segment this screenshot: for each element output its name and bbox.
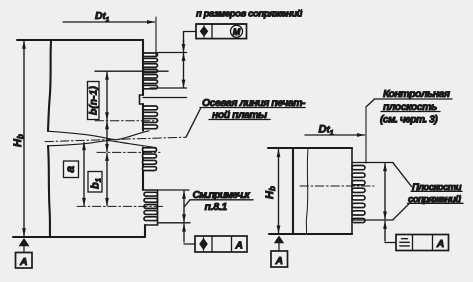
dash-dot centre line, first contact lower half: [97, 151, 160, 153]
svg-text:b(n-1): b(n-1): [89, 86, 100, 115]
svg-text:п размеров сопряжений: п размеров сопряжений: [196, 9, 303, 20]
frame divider 2: [231, 236, 233, 252]
underline sopryazheniy: [408, 202, 464, 204]
lower contact block tip edge: [157, 190, 159, 225]
contact tooth right part #2: [352, 173, 365, 177]
right tolerance frame: symmetry | blank | A: [396, 235, 449, 251]
contact tooth upper group 2 #2: [143, 112, 158, 116]
dimension a line: [83, 143, 85, 206]
fan leader to text (upper): [393, 163, 412, 187]
bottom tolerance frame (left): diamond | blank | A: [195, 236, 247, 252]
contact tooth lower block #5: [144, 217, 158, 221]
fan leader to text (lower): [393, 203, 410, 220]
dimension b1 line: [106, 153, 108, 205]
dimension Dt1 right: [305, 134, 365, 136]
extension line of contact tips (Dt1): [155, 17, 157, 56]
contact tooth upper group 1 #4: [143, 69, 158, 72]
right part left edge: [292, 148, 294, 234]
datum triangle A (left figure): [19, 238, 30, 246]
centre line right part (dash-dot): [300, 185, 374, 187]
datum box A (left): [16, 253, 33, 269]
contact tooth upper group 1 #6: [143, 80, 158, 83]
underline, axis label line 2: [209, 119, 270, 121]
leader text Sm.primech.k p.8.1: [185, 200, 191, 207]
frame divider 2 (right): [432, 235, 434, 251]
contact tooth lower block #4: [144, 211, 158, 215]
underline control plane line 1: [374, 98, 452, 100]
dimension Hb vertical line with arrows: [23, 41, 25, 236]
label box b(n-1): [88, 82, 100, 120]
frame divider: [211, 24, 213, 39]
dimension b(n-1) line: [106, 72, 108, 120]
frame leader horizontal: [184, 243, 195, 245]
svg-text:A: A: [436, 238, 445, 250]
contact tooth right part #4: [352, 188, 365, 192]
extension line, last contact of group 1: [150, 87, 187, 89]
lower contact block top edge: [144, 189, 158, 191]
extension line, first contact top: [158, 52, 187, 54]
contact tooth right part #7: [352, 211, 365, 215]
svg-text:A: A: [19, 256, 28, 268]
right part top edge: [268, 147, 352, 149]
svg-text:ной платы: ной платы: [212, 109, 267, 121]
contact tooth upper group 2 #4: [143, 125, 158, 129]
contact tooth upper group 1 #1: [143, 53, 158, 56]
contact tooth right part #5: [352, 196, 365, 200]
tolerance frame top (position/M): [196, 23, 247, 25]
break wavy line (top of lower half): [48, 141, 156, 148]
contact tooth upper group 1 #2: [143, 58, 158, 61]
underline ploskosti: [411, 190, 462, 192]
contact tooth upper group 1 #5: [143, 75, 158, 78]
label box a: [64, 161, 79, 178]
notch in right edge between contact groups: [140, 95, 144, 104]
dimension Dt1 top line: [63, 21, 155, 23]
break wavy line (bottom of upper half): [49, 131, 149, 140]
contact tooth lower group 3 #4: [143, 167, 157, 171]
contact tooth lower group 3 #1: [143, 148, 157, 152]
svg-text:a: a: [63, 166, 77, 173]
right part bottom edge / baseline: [269, 233, 352, 235]
symmetry symbol: three bars: [402, 238, 408, 240]
datum triangle A (right figure): [274, 236, 284, 244]
datum stem right: [278, 243, 280, 251]
svg-text:(см. черт. 3): (см. черт. 3): [380, 115, 438, 126]
underline of note text: [190, 199, 253, 201]
contact tooth upper group 2 #3: [143, 119, 158, 123]
contact tooth lower block #1: [144, 192, 158, 196]
right root edge between notch and break: [142, 104, 144, 131]
contact tooth upper group 2 #1: [143, 106, 158, 110]
dimension mating planes span: [384, 164, 386, 219]
svg-text:Контрольная: Контрольная: [383, 88, 450, 100]
svg-text:A: A: [275, 255, 284, 267]
contact tooth right part #3: [352, 181, 365, 185]
dash-dot centre line, last contact group 2: [95, 120, 158, 122]
dimension for n mating sizes: [183, 53, 185, 87]
extension line mating planes bottom: [353, 219, 393, 221]
underline, axis label line 1: [200, 107, 305, 109]
contact tooth lower group 3 #3: [143, 160, 157, 164]
frame leader horizontal (right): [385, 242, 396, 244]
extension line from block bottom contact: [158, 222, 190, 224]
contact tooth right part #1: [352, 166, 365, 170]
lower contact block bottom edge: [145, 224, 158, 226]
svg-text:См.примеч.к: См.примеч.к: [193, 189, 251, 201]
left part bottom right corner edge: [144, 225, 146, 237]
svg-text:п.8.1: п.8.1: [205, 201, 228, 213]
datum stem: [23, 246, 25, 252]
dimension between contact groups: [106, 122, 108, 152]
frame leader arrow up (right): [384, 221, 386, 241]
leader: control plane callout: [367, 100, 375, 107]
leader from tolerance frame to extension line: [184, 32, 197, 45]
left part wavy left break edge (lower half): [48, 146, 50, 237]
extension line through contact centre (top of b(n-1)): [95, 70, 168, 72]
svg-text:Осевая линия печат-: Осевая линия печат-: [202, 97, 306, 109]
contact tooth upper group 1 #3: [143, 64, 158, 67]
contact tooth right part #8: [352, 218, 365, 222]
dimension see note 8.1: [183, 191, 185, 222]
right root edge lower half: [142, 148, 144, 191]
frame divider 1 (right): [412, 235, 414, 251]
extension line: control plane: [365, 107, 367, 164]
contact tooth upper group 1 #7: [143, 85, 158, 88]
extension line, notch plane: [143, 97, 187, 99]
svg-text:сопряжений: сопряжений: [408, 194, 461, 205]
contact tooth lower group 3 #2: [143, 154, 157, 158]
PCB axis centre line (dash-dot): [45, 137, 186, 141]
frame divider 1: [211, 236, 213, 252]
extension line from block top: [158, 189, 190, 191]
svg-text:M: M: [233, 27, 241, 37]
underline control plane line 2: [381, 111, 440, 113]
leader: axis line callout: [186, 109, 201, 138]
left part bottom edge / datum A baseline: [13, 236, 145, 238]
left part right root edge upper: [142, 40, 144, 95]
left part wavy left break edge (upper half): [48, 41, 51, 131]
symbol: circled M (material condition): [231, 25, 243, 37]
contact tooth lower block #3: [144, 205, 158, 209]
dimension Hb right: [278, 150, 280, 233]
dash-dot centre line, last lower contact: [77, 205, 165, 207]
leader arrow to first contact line: [183, 40, 185, 52]
frame leader arrow up: [183, 224, 185, 242]
datum box A (right): [271, 251, 288, 267]
svg-text:плоскость: плоскость: [383, 101, 437, 113]
svg-text:Плоскости: Плоскости: [412, 182, 462, 193]
svg-text:A: A: [234, 239, 243, 251]
symbol: filled diamond (intersection of axes): [200, 26, 209, 37]
contact tooth right part #6: [352, 203, 365, 207]
contact tooth lower block #2: [144, 198, 158, 202]
right part root edge: [351, 148, 353, 234]
extension line mating planes top: [353, 162, 393, 164]
internal wavy texture line: [306, 149, 308, 233]
label box b1: [88, 172, 102, 193]
left part top edge: [17, 39, 143, 41]
